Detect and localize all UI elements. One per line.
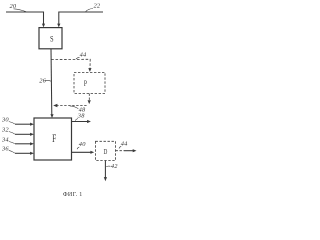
arrowhead 48 into main wire — [53, 104, 57, 107]
arrowhead 32 — [30, 133, 34, 136]
wire input 34 — [15, 143, 31, 145]
caption FIG 1 — [63, 192, 83, 198]
label 38 — [77, 113, 85, 120]
wire dashed branch to P — [51, 59, 90, 68]
svg-text:F: F — [52, 134, 56, 146]
label 48 — [79, 107, 86, 114]
label 22 — [94, 3, 101, 10]
label 42 — [111, 163, 118, 170]
arrowhead into P top — [88, 68, 91, 72]
label 26 — [39, 77, 46, 84]
block F — [34, 118, 72, 160]
svg-text:D: D — [104, 149, 108, 156]
svg-text:S: S — [50, 35, 54, 44]
wire dashed 48 to main line — [57, 105, 86, 107]
arrowhead 38 — [87, 120, 91, 123]
block S — [39, 28, 62, 49]
wire output 40 — [72, 151, 91, 153]
wire output 38 — [72, 121, 88, 123]
arrowhead 40 — [90, 151, 94, 154]
label 40 — [79, 141, 86, 148]
arrowhead 34 — [30, 142, 34, 145]
arrowhead 30 — [30, 123, 34, 126]
svg-text:22: 22 — [94, 3, 101, 10]
arrowhead 44 — [133, 149, 137, 152]
wire output 42 (down) — [104, 161, 106, 178]
label 44 (lower) — [121, 141, 128, 148]
wire input lead 22 — [59, 12, 103, 25]
svg-text:44: 44 — [121, 141, 128, 148]
svg-text:38: 38 — [77, 113, 85, 120]
svg-text:ФИГ. 1: ФИГ. 1 — [63, 192, 83, 198]
wire output 44 (dashed then solid) — [116, 150, 125, 152]
wire input 30 — [15, 123, 31, 125]
arrowhead into F top — [50, 114, 53, 118]
label 20 — [10, 3, 17, 10]
svg-text:36: 36 — [1, 145, 9, 152]
label 36 — [1, 145, 9, 152]
svg-text:44: 44 — [80, 51, 87, 58]
block P (dashed) — [74, 72, 105, 93]
svg-text:34: 34 — [1, 137, 9, 144]
wire input lead 20 — [6, 12, 44, 25]
svg-text:40: 40 — [79, 141, 86, 148]
label 32 — [1, 127, 9, 134]
svg-text:26: 26 — [39, 77, 46, 84]
svg-text:32: 32 — [1, 127, 9, 134]
wire input 36 — [15, 152, 31, 154]
label 34 — [1, 137, 9, 144]
wire S to F — [50, 49, 53, 115]
wire input 32 — [15, 133, 31, 135]
block D (dashed) — [96, 141, 116, 160]
svg-text:30: 30 — [1, 117, 9, 124]
label 30 — [1, 117, 9, 124]
arrowhead into S (left) — [42, 24, 45, 28]
arrowhead into S (right) — [57, 24, 60, 28]
svg-text:42: 42 — [111, 163, 118, 170]
arrowhead 36 — [30, 152, 34, 155]
arrowhead down from P — [88, 100, 91, 104]
svg-text:P: P — [84, 80, 87, 88]
arrowhead 42 — [104, 177, 107, 181]
wire dashed output of P — [88, 94, 90, 101]
label 44 (upper) — [80, 51, 87, 58]
